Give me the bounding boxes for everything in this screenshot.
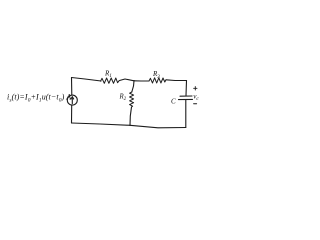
wire R3 to top-right corner [166, 79, 187, 82]
wire right vertical to capacitor [185, 81, 188, 96]
capacitor C top plate [180, 95, 192, 97]
label + polarity mark [194, 87, 197, 90]
current source arrow [71, 97, 73, 103]
node B junction bottom [129, 125, 130, 126]
wire capacitor to bottom-right corner [185, 100, 187, 128]
wire bottom horizontal [72, 123, 186, 128]
wire node A to R3 [134, 80, 149, 82]
wire R1 to node A [120, 79, 135, 81]
wire left vertical upper [71, 78, 73, 96]
wire node A to R2 [132, 81, 134, 92]
capacitor C bottom plate [179, 98, 193, 100]
node A junction [133, 80, 134, 81]
label − polarity mark [194, 103, 197, 105]
wire top-left horizontal [72, 78, 102, 82]
resistor R2 vertical [130, 92, 134, 107]
resistor R3 [149, 78, 166, 83]
resistor R1 [101, 78, 120, 83]
wire left vertical lower [71, 105, 73, 123]
wire R2 to bottom node B [130, 107, 132, 125]
svg-text:C: C [171, 98, 176, 106]
current source IS circle [67, 95, 77, 105]
